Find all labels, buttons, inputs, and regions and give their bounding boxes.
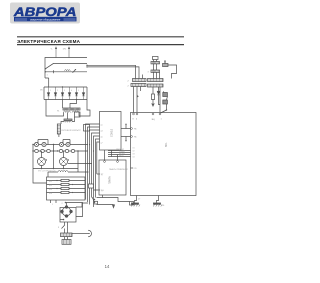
svg-text:a1: a1: [101, 125, 103, 127]
switch pole 1: [46, 63, 88, 68]
svg-text:Х3: Х3: [133, 154, 135, 156]
svg-text:a5: a5: [101, 137, 103, 139]
svg-text:4: 4: [71, 90, 72, 92]
emitter rail: [33, 145, 78, 173]
varistor chain: [159, 87, 161, 113]
svg-text:ПЛАТА: ПЛАТА: [109, 176, 112, 184]
chassis ground 2: [157, 196, 159, 203]
front panel feed pins: [105, 150, 118, 160]
power PCB box (main): [131, 113, 197, 196]
harness relay block: [84, 125, 90, 132]
svg-text:R33: R33: [49, 189, 52, 191]
front panel PCB box: [99, 160, 126, 195]
svg-text:CON10: CON10: [111, 128, 114, 137]
control PCB left pin rows (staircase harness): [86, 124, 100, 207]
svg-text:Х1: Х1: [133, 148, 135, 150]
svg-text:сварочное оборудование: сварочное оборудование: [30, 17, 61, 21]
connector pair CN2 (wide, below fan): [144, 79, 163, 89]
logo tagline bar: [14, 17, 77, 22]
diode VD7 chain: [158, 87, 160, 91]
svg-text:2: 2: [57, 90, 58, 92]
svg-text:ЭЛЕКТРИЧЕСКАЯ СХЕМА: ЭЛЕКТРИЧЕСКАЯ СХЕМА: [17, 39, 81, 44]
svg-text:3Щ: 3Щ: [152, 119, 155, 121]
svg-text:R34: R34: [49, 193, 52, 195]
svg-text:~1.: ~1.: [50, 49, 53, 51]
torch connector pair (hatched): [61, 233, 73, 244]
svg-text:Х4: Х4: [133, 157, 135, 159]
output choke L1: [48, 171, 58, 173]
PCB top pins: [133, 113, 135, 115]
snubber row A (small cap circles): [33, 144, 88, 146]
bridge junction dots: [62, 86, 63, 87]
switch box outline: [45, 58, 87, 88]
svg-text:ПАНЕЛЬ УПРАВЛЕНИЯ: ПАНЕЛЬ УПРАВЛЕНИЯ: [109, 168, 129, 171]
logo background plate: [10, 3, 80, 24]
chassis ground 1: [135, 196, 137, 203]
aux feed pair to fan connector: [87, 65, 136, 78]
choke L2 with centre tap: [67, 113, 69, 120]
resistor R10 chain down to power PCB pin: [152, 87, 154, 94]
switch pole 2 with thermal element: [46, 71, 88, 73]
inductor L3 (vertical): [57, 124, 60, 134]
opto row 2: [121, 136, 131, 138]
transformer T1: [57, 108, 80, 113]
opto row 1: [121, 128, 131, 130]
svg-text:Х2: Х2: [133, 151, 135, 153]
svg-text:СЕТЕВОЙ ФИЛЬТР: СЕТЕВОЙ ФИЛЬТР: [61, 129, 81, 132]
svg-text:R32: R32: [49, 185, 52, 187]
svg-text:1: 1: [50, 90, 51, 92]
svg-text:5: 5: [78, 90, 79, 92]
svg-text:a3: a3: [101, 131, 103, 133]
svg-text:ВС1: ВС1: [165, 142, 168, 147]
trigger contacts below connector: [65, 222, 68, 226]
svg-text:R31: R31: [49, 181, 52, 183]
fan M1 assembly (right vertical stack): [148, 57, 160, 79]
CN1 pin stubs down to control PCB: [134, 75, 143, 113]
svg-text:Х15: Х15: [134, 168, 137, 170]
svg-text:14: 14: [105, 264, 110, 269]
IGBT Q2: [60, 158, 68, 166]
bridge diodes: [40, 87, 85, 100]
wire harness bundle merge dots: [94, 199, 95, 200]
bridge rectifier rails: [44, 87, 87, 100]
thermostat ST loop at top right: [163, 61, 177, 79]
svg-text:a7: a7: [101, 143, 103, 145]
torch euro connector: [60, 208, 76, 223]
title underline: [17, 44, 184, 45]
4-wire labeled bundle to power PCB: [108, 151, 131, 157]
link bridge to transformer: [63, 100, 77, 109]
diode chain row B: [33, 150, 88, 152]
input arrow N: [68, 48, 70, 58]
svg-text:1/N.: 1/N.: [63, 49, 67, 51]
output resistor network box: [47, 177, 86, 200]
control PCB box: [100, 112, 122, 151]
svg-text:АВРОРА: АВРОРА: [13, 5, 77, 19]
connector pair CN1 (left, stacked hatched blocks): [128, 79, 147, 88]
title top rule: [17, 35, 184, 38]
gas valve connector Є: [72, 233, 88, 235]
IGBT Q1: [38, 158, 46, 166]
svg-text:1: 1: [52, 204, 53, 206]
svg-text:3: 3: [64, 90, 65, 92]
bottom junction area: [97, 198, 130, 202]
input arrow L: [55, 48, 57, 58]
